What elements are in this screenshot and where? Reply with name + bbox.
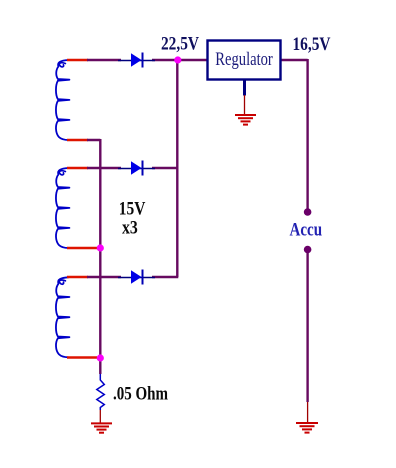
svg-text:Regulator: Regulator — [215, 49, 273, 70]
svg-text:16,5V: 16,5V — [293, 34, 331, 55]
svg-text:.05 Ohm: .05 Ohm — [113, 384, 168, 405]
svg-text:Accu: Accu — [290, 220, 323, 241]
svg-text:22,5V: 22,5V — [161, 34, 199, 55]
svg-text:x3: x3 — [122, 218, 138, 239]
svg-text:15V: 15V — [119, 199, 146, 220]
